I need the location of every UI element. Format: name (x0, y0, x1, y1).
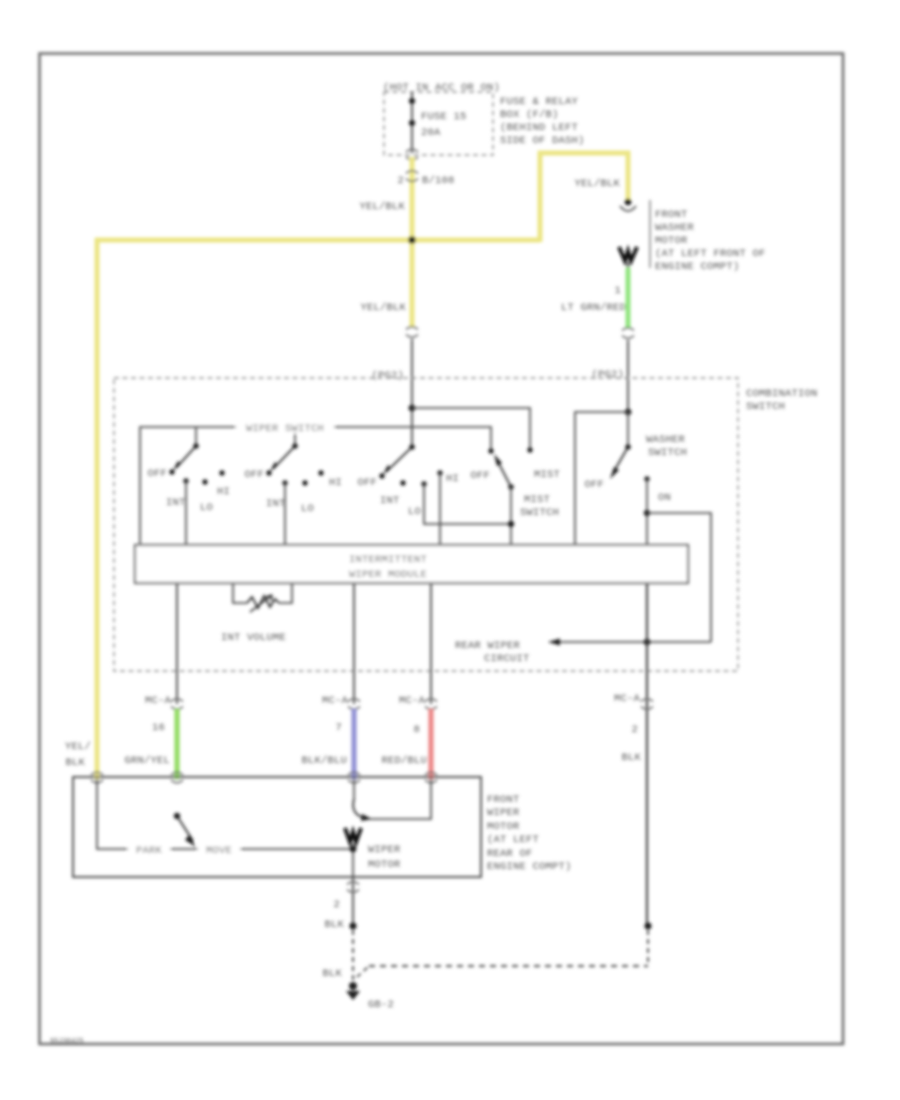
wire YEL/BLK from fuse down (410, 157, 415, 242)
wire gray washer into combination switch (627, 340, 629, 413)
wire yellow branch up to washer motor (540, 153, 628, 242)
svg-text:HI: HI (217, 486, 230, 498)
svg-text:8: 8 (413, 724, 420, 736)
wiper switch bus (140, 427, 491, 545)
svg-text:WIPER: WIPER (487, 807, 520, 819)
svg-text:MC-A: MC-A (322, 695, 349, 707)
combination switch box (dashed) (114, 378, 738, 671)
svg-text:(PG2): (PG2) (371, 370, 404, 382)
svg-text:YEL/: YEL/ (65, 741, 91, 753)
svg-text:INTERMITTENT: INTERMITTENT (349, 554, 427, 566)
node motor common (352, 843, 354, 877)
svg-text:(PG2): (PG2) (591, 369, 624, 381)
resistor INT VOLUME (233, 583, 247, 603)
svg-text:SWITCH: SWITCH (746, 401, 785, 413)
svg-text:YEL/BLK: YEL/BLK (574, 178, 620, 190)
ground G (349, 982, 357, 990)
svg-text:ON: ON (658, 492, 671, 504)
node junction right BLK (644, 922, 651, 929)
fuse F15 element (409, 98, 415, 104)
svg-text:WIPER SWITCH: WIPER SWITCH (246, 423, 324, 435)
node washer feed junction (625, 409, 632, 416)
svg-text:INT: INT (266, 498, 286, 510)
node junction wiper feed (409, 405, 416, 412)
svg-text:BLK: BLK (324, 919, 344, 931)
svg-text:WIPER: WIPER (368, 844, 401, 856)
svg-text:BLK: BLK (322, 968, 342, 980)
svg-text:7: 7 (335, 722, 342, 734)
svg-text:INT: INT (166, 497, 186, 509)
brush select arm (353, 799, 365, 818)
wire yellow horizontal bus (95, 238, 540, 243)
svg-text:FUSE & RELAY: FUSE & RELAY (500, 96, 579, 108)
wire gray into combination switch (411, 339, 413, 449)
svg-text:WASHER: WASHER (646, 434, 686, 446)
node junction (349, 922, 356, 929)
svg-text:SWITCH: SWITCH (648, 447, 687, 459)
wire LO brush feed (353, 779, 355, 800)
svg-text:SIDE OF DASH): SIDE OF DASH) (500, 135, 585, 147)
wire module pin to BLK/BLU (353, 583, 355, 704)
svg-text:WASHER: WASHER (655, 222, 695, 234)
wire S1 INT to module (185, 481, 187, 546)
svg-text:BLK: BLK (65, 757, 85, 769)
svg-text:OFF: OFF (470, 470, 490, 482)
svg-text:2: 2 (397, 175, 404, 187)
connector on center drop (406, 327, 418, 330)
wire washer tap to module (575, 412, 628, 546)
svg-text:INT: INT (380, 495, 400, 507)
wire module pin to RED/BLU (430, 583, 432, 704)
washer motor terminal (625, 199, 632, 206)
svg-text:BOX (F/B): BOX (F/B) (500, 109, 559, 121)
switch S1 section 1 (193, 443, 199, 449)
svg-text:(AT LEFT FRONT OF: (AT LEFT FRONT OF (655, 248, 766, 260)
wire module pin to GRN/YEL (176, 583, 178, 704)
wire motor ground lead (352, 877, 354, 926)
svg-text:(AT LEFT: (AT LEFT (487, 834, 539, 846)
wire washer motor down (627, 262, 629, 270)
wire stub pivot 2 (294, 427, 296, 446)
svg-text:LO: LO (301, 503, 314, 515)
switch S3 washer (627, 412, 629, 447)
wire S1 LO to mist node (424, 484, 511, 524)
svg-text:OFF: OFF (584, 479, 604, 491)
svg-text:BLK: BLK (621, 752, 641, 764)
svg-text:95J30425: 95J30425 (50, 1038, 84, 1046)
node junction (408, 236, 416, 244)
svg-text:ENGINE COMPT): ENGINE COMPT) (655, 261, 740, 273)
wire rear wiper branch (647, 513, 711, 642)
svg-text:LO: LO (200, 502, 213, 514)
svg-text:1: 1 (614, 285, 621, 297)
svg-text:OFF: OFF (357, 477, 377, 489)
svg-text:MOTOR: MOTOR (655, 235, 688, 247)
svg-text:MOVE: MOVE (206, 845, 232, 857)
washer motor M1 winding (619, 247, 637, 261)
connector marks at box entries (91, 772, 103, 775)
svg-text:FRONT: FRONT (655, 209, 688, 221)
svg-text:COMBINATION: COMBINATION (746, 388, 818, 400)
wire yellow left drop (95, 238, 100, 779)
svg-text:2: 2 (631, 724, 638, 736)
svg-text:HI: HI (329, 477, 342, 489)
wire to mist contact (412, 408, 530, 449)
front wiper motor box (73, 777, 481, 877)
svg-text:B/108: B/108 (422, 175, 455, 187)
wire washer ON to module (646, 479, 648, 546)
svg-text:SWITCH: SWITCH (520, 507, 559, 519)
svg-text:MOTOR: MOTOR (487, 821, 520, 833)
switch S1 section 2 (292, 443, 298, 449)
wire yellow center drop (410, 240, 415, 327)
svg-text:BLK/BLU: BLK/BLU (301, 755, 347, 767)
svg-text:GB-2: GB-2 (368, 999, 394, 1011)
svg-text:(BEHIND LEFT: (BEHIND LEFT (500, 122, 578, 134)
park switch arm (174, 813, 180, 819)
node ON junction (644, 510, 650, 516)
svg-text:LT GRN/RED: LT GRN/RED (561, 302, 626, 314)
svg-text:PARK: PARK (136, 845, 163, 857)
wire S1 section2 INT to module (284, 483, 286, 546)
svg-text:HI: HI (446, 473, 459, 485)
switch S1 section 3 (409, 444, 415, 450)
wire stub pivot 1 (195, 427, 197, 446)
node mist/LO junction (508, 521, 514, 527)
wire BLK/BLU (351, 709, 356, 779)
wire fuse internal (411, 92, 413, 153)
svg-text:MC-A: MC-A (145, 695, 172, 707)
label FRONT WASHER MOTOR (649, 200, 651, 268)
svg-text:YEL/BLK: YEL/BLK (360, 302, 406, 314)
connector at fuse box exit (406, 149, 418, 152)
wire park feed (97, 779, 353, 849)
svg-text:OFF: OFF (147, 468, 167, 480)
wire dashed ground lead (352, 930, 354, 980)
svg-text:CIRCUIT: CIRCUIT (484, 653, 530, 665)
svg-text:2: 2 (333, 899, 340, 911)
svg-text:FRONT: FRONT (487, 794, 520, 806)
svg-text:MIST: MIST (534, 469, 560, 481)
wire LT GRN/RED (626, 268, 631, 328)
park switch labels (128, 842, 170, 855)
svg-text:ENGINE COMPT): ENGINE COMPT) (487, 861, 572, 873)
motor M2 winding (345, 828, 361, 842)
wire RED/BLU (428, 709, 433, 779)
wire module pin to BLK right (646, 583, 648, 926)
svg-text:FUSE 15: FUSE 15 (421, 111, 467, 123)
svg-text:20A: 20A (421, 127, 441, 139)
intermittent wiper module U1 (135, 545, 688, 583)
svg-text:MC-A: MC-A (399, 695, 426, 707)
switch S2 mist (488, 448, 493, 453)
svg-text:GRN/YEL: GRN/YEL (124, 755, 170, 767)
wire rear wiper circuit line (550, 641, 711, 643)
wire dashed rear ground bus (357, 966, 369, 977)
wire HI brush feed (370, 779, 431, 819)
svg-text:REAR WIPER: REAR WIPER (455, 640, 521, 652)
svg-text:YEL/BLK: YEL/BLK (359, 201, 405, 213)
svg-text:WIPER MODULE: WIPER MODULE (349, 569, 427, 581)
fuse &amp; relay box F/B (dashed) (384, 92, 493, 155)
wiper switch label (236, 420, 334, 433)
svg-text:MIST: MIST (524, 494, 550, 506)
svg-text:OFF: OFF (244, 469, 264, 481)
svg-text:LO: LO (408, 506, 421, 518)
wire mist common to module (510, 487, 512, 546)
svg-text:RED/BLU: RED/BLU (381, 755, 427, 767)
wire GRN/YEL (174, 709, 179, 779)
connector on washer drop (622, 328, 634, 331)
svg-text:16: 16 (152, 722, 165, 734)
svg-text:MC-A: MC-A (614, 693, 641, 705)
wire S1 HI to module (439, 473, 441, 546)
svg-text:REAR OF: REAR OF (487, 848, 533, 860)
svg-text:MOTOR: MOTOR (368, 859, 401, 871)
svg-text:INT VOLUME: INT VOLUME (221, 632, 286, 644)
